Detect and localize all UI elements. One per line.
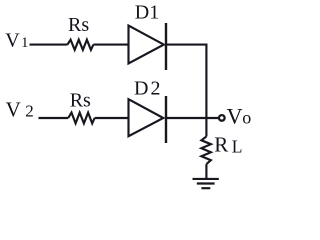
svg-text:V: V xyxy=(227,103,243,128)
diode D1 cathode bar xyxy=(165,23,167,70)
wire Rs to D1 anode xyxy=(93,44,128,46)
wire RL to ground xyxy=(205,164,207,178)
wire D1 cathode to output node (corner) xyxy=(166,45,206,118)
wire node to RL xyxy=(205,118,207,137)
wire Rs to D2 anode xyxy=(95,117,129,119)
label Vo xyxy=(227,103,252,128)
wire V1 to Rs xyxy=(30,44,68,46)
resistor Rs (top) xyxy=(67,40,93,50)
resistor Rs (bottom) xyxy=(68,113,94,124)
wire V2 to Rs xyxy=(39,117,69,119)
svg-text:Rs: Rs xyxy=(70,89,91,111)
diode D2 triangle xyxy=(129,99,164,136)
svg-text:D: D xyxy=(134,78,148,100)
svg-text:R: R xyxy=(214,132,228,156)
svg-text:V: V xyxy=(5,29,20,51)
label D2 xyxy=(134,78,161,100)
label RL xyxy=(214,132,242,156)
svg-text:2: 2 xyxy=(25,102,34,121)
svg-text:D1: D1 xyxy=(135,2,159,24)
svg-text:1: 1 xyxy=(21,35,29,51)
node V2 label xyxy=(6,97,34,121)
diode D2 cathode bar xyxy=(165,96,167,143)
resistor RL xyxy=(201,137,211,165)
svg-text:V: V xyxy=(6,97,21,121)
node V1 label xyxy=(5,29,28,51)
svg-text:Rs: Rs xyxy=(68,14,89,36)
svg-text:o: o xyxy=(242,107,251,127)
wire D2 cathode to Vo terminal (junction with vertical wire) xyxy=(166,117,219,119)
diode D1 triangle xyxy=(129,26,164,64)
output terminal circle xyxy=(219,115,225,121)
svg-text:2: 2 xyxy=(151,78,161,100)
ground xyxy=(193,179,219,188)
svg-text:L: L xyxy=(232,136,243,156)
